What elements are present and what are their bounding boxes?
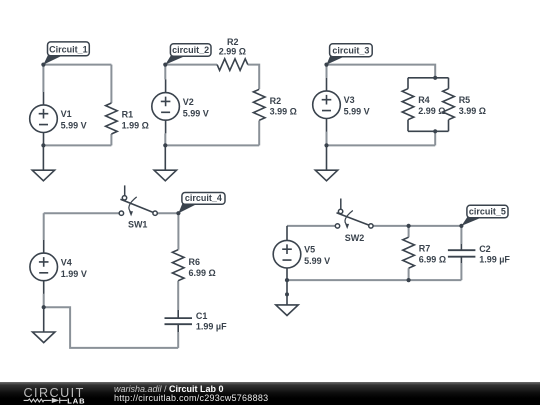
resistor R2 horizontal xyxy=(217,37,248,71)
wire circuit3 R4 stubs xyxy=(407,78,409,132)
wire circuit3 top xyxy=(327,65,436,78)
node circuit3 parallel top junction xyxy=(433,76,437,80)
svg-text:R1: R1 xyxy=(122,110,134,120)
svg-text:5.99 V: 5.99 V xyxy=(61,121,87,131)
svg-text:SW2: SW2 xyxy=(345,233,365,243)
wire circuit5 bottom xyxy=(287,279,461,281)
svg-text:1.99 Ω: 1.99 Ω xyxy=(122,120,149,130)
svg-text:1.99 µF: 1.99 µF xyxy=(479,254,510,264)
switch SW1 xyxy=(119,185,157,229)
node circuit5 R7 top junction xyxy=(407,224,411,228)
resistor R7 xyxy=(403,237,446,268)
svg-text:3.99 Ω: 3.99 Ω xyxy=(270,107,297,117)
wire circuit2 bottom xyxy=(165,144,259,146)
wire circuit3 parallel box bottom xyxy=(408,130,449,132)
node circuit5 C2 top junction xyxy=(459,224,463,228)
wire circuit2 right rail lower xyxy=(258,121,260,146)
wire circuit1 top xyxy=(43,64,111,66)
wire circuit3 left rail lower xyxy=(326,132,328,146)
wire circuit5 R7 stubs xyxy=(408,226,410,280)
wire circuit1 left rail xyxy=(42,65,44,92)
net label tag Circuit_1 xyxy=(43,42,89,65)
svg-text:2.99 Ω: 2.99 Ω xyxy=(219,46,246,56)
wire circuit3 bottom xyxy=(327,144,436,146)
resistor R1 xyxy=(106,103,149,134)
svg-text:5.99 V: 5.99 V xyxy=(344,107,370,117)
logo diode triangle xyxy=(52,398,60,403)
wire circuit5 top-right xyxy=(373,225,461,227)
voltage source V2 xyxy=(152,79,209,133)
wire circuit4 left rail upper xyxy=(43,213,45,240)
wire circuit2 left rail lower xyxy=(164,133,166,145)
resistor R5 xyxy=(443,89,486,120)
wire circuit1 R1 top stub xyxy=(110,65,112,103)
voltage source V1 xyxy=(30,92,87,145)
resistor R6 xyxy=(172,250,215,281)
ground xyxy=(315,145,337,180)
wire circuit4 C1 bottom stub xyxy=(177,332,179,348)
svg-text:2.99 Ω: 2.99 Ω xyxy=(418,106,445,116)
svg-text:R4: R4 xyxy=(418,95,430,105)
wire circuit1 bottom xyxy=(43,144,111,146)
svg-text:circuit_3: circuit_3 xyxy=(332,45,369,55)
svg-text:C2: C2 xyxy=(479,244,491,254)
svg-text:circuit_5: circuit_5 xyxy=(469,207,506,217)
node circuit4 switch-R6 junction xyxy=(176,211,180,215)
svg-text:V5: V5 xyxy=(304,245,315,255)
svg-text:Circuit_1: Circuit_1 xyxy=(49,45,88,55)
svg-text:LAB: LAB xyxy=(67,396,85,405)
svg-text:R6: R6 xyxy=(189,257,201,267)
logo resistor-diode squiggle xyxy=(24,398,68,404)
node circuit1 bottom junction xyxy=(41,143,45,147)
wire circuit4 bottom jog xyxy=(44,307,179,348)
svg-text:5.99 V: 5.99 V xyxy=(304,256,330,266)
net label tag circuit_4 xyxy=(178,193,225,214)
wire circuit2 top-right corner xyxy=(248,65,260,89)
svg-text:circuit_4: circuit_4 xyxy=(185,193,222,203)
resistor R4 xyxy=(402,89,445,120)
voltage source V4 xyxy=(30,240,87,294)
wire circuit3 right rail lower xyxy=(434,131,436,145)
wire circuit4 R6-C1 link xyxy=(177,281,179,310)
node circuit2 top-left junction xyxy=(163,63,167,67)
svg-text:V2: V2 xyxy=(183,97,194,107)
capacitor C1 xyxy=(165,310,228,332)
wire circuit5 C2 top stub xyxy=(460,226,462,244)
svg-text:5.99 V: 5.99 V xyxy=(183,108,209,118)
svg-text:SW1: SW1 xyxy=(128,219,148,229)
node circuit3 top-left junction xyxy=(324,63,328,67)
ground xyxy=(154,145,176,180)
svg-text:V3: V3 xyxy=(344,95,355,105)
svg-text:V4: V4 xyxy=(61,257,72,267)
node circuit5 V5 bottom junction xyxy=(285,278,289,282)
wire circuit4 top-right xyxy=(157,212,178,214)
svg-text:C1: C1 xyxy=(196,311,208,321)
net label tag circuit_3 xyxy=(327,44,373,65)
wire circuit4 left rail lower xyxy=(43,294,45,307)
wire circuit5 C2 bottom stub xyxy=(460,263,462,280)
ground xyxy=(32,145,54,180)
wire circuit4 top-left xyxy=(44,212,120,214)
voltage source V5 xyxy=(273,226,330,280)
wire circuit5 top-left xyxy=(287,225,335,227)
footer bar xyxy=(0,382,540,405)
switch SW2 xyxy=(335,199,373,244)
svg-text:1.99 V: 1.99 V xyxy=(61,269,87,279)
node circuit4 bottom junction xyxy=(42,305,46,309)
wire circuit3 R5 stubs xyxy=(448,78,450,132)
svg-text:circuit_2: circuit_2 xyxy=(172,45,209,55)
node circuit1 top-left junction xyxy=(41,63,45,67)
svg-text:6.99 Ω: 6.99 Ω xyxy=(419,255,446,265)
svg-text:R2: R2 xyxy=(227,37,239,47)
net label tag circuit_5 xyxy=(461,205,508,226)
node circuit5 R7 bottom junction xyxy=(407,278,411,282)
wire circuit1 R1 bottom stub xyxy=(110,134,112,145)
svg-text:R5: R5 xyxy=(459,95,471,105)
net label tag circuit_2 xyxy=(165,44,211,65)
node circuit2 bottom junction xyxy=(163,143,167,147)
svg-text:V1: V1 xyxy=(61,109,72,119)
resistor R2 vertical xyxy=(253,89,296,120)
wire circuit3 parallel box top xyxy=(408,77,449,79)
svg-text:R2: R2 xyxy=(270,96,282,106)
node circuit3 parallel bottom junction xyxy=(433,129,437,133)
ground xyxy=(33,307,55,342)
wire circuit4 R6 top stub xyxy=(177,213,179,250)
svg-text:6.99 Ω: 6.99 Ω xyxy=(189,268,216,278)
voltage source V3 xyxy=(313,78,370,132)
svg-text:R7: R7 xyxy=(419,244,431,254)
wire circuit2 top-left xyxy=(165,64,217,66)
svg-text:http://circuitlab.com/c293cw57: http://circuitlab.com/c293cw5768883 xyxy=(114,393,268,403)
svg-text:3.99 Ω: 3.99 Ω xyxy=(459,106,486,116)
wire circuit3 left rail upper xyxy=(326,65,328,78)
node circuit3 bottom junction xyxy=(324,143,328,147)
wire circuit2 left rail upper xyxy=(164,65,166,80)
capacitor C2 xyxy=(448,244,511,265)
svg-text:1.99 µF: 1.99 µF xyxy=(196,322,227,332)
ground xyxy=(276,280,298,315)
